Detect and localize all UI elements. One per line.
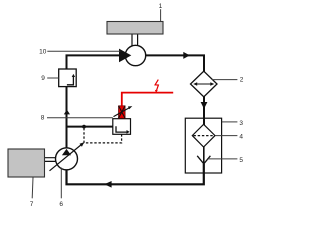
svg-text:9: 9 [41,75,45,82]
svg-text:6: 6 [59,201,63,208]
svg-text:3: 3 [239,120,243,127]
svg-text:10: 10 [39,49,47,56]
svg-text:1: 1 [159,3,163,10]
svg-text:2: 2 [240,77,244,84]
svg-text:8: 8 [41,114,45,121]
svg-text:5: 5 [239,157,243,164]
svg-text:7: 7 [30,201,34,208]
svg-text:4: 4 [239,134,243,141]
